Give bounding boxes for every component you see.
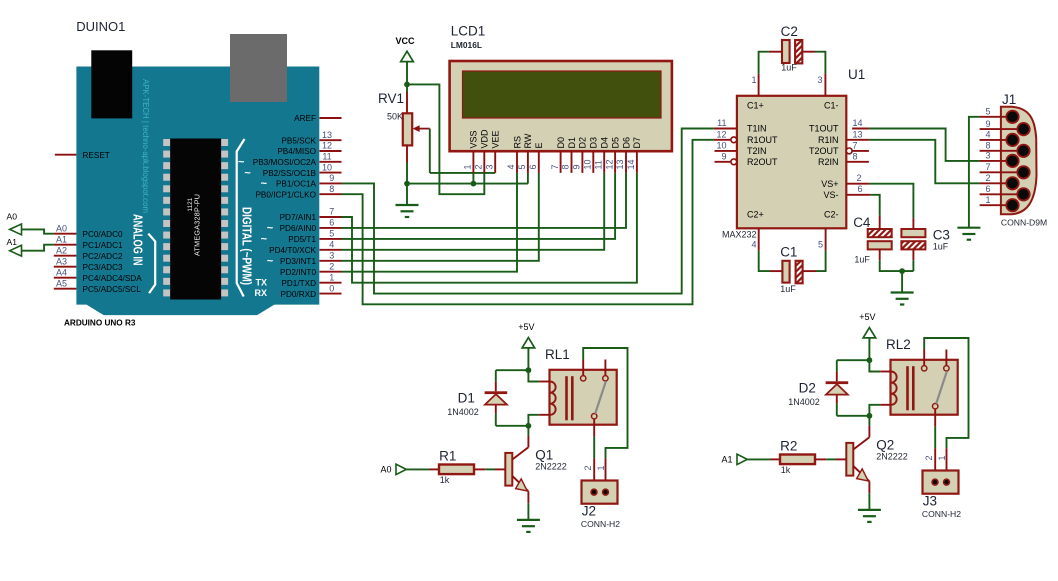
svg-text:T1IN: T1IN [747, 124, 767, 134]
resistor R1 1k [439, 449, 474, 485]
svg-text:C1: C1 [780, 244, 797, 259]
svg-text:3: 3 [484, 164, 494, 169]
svg-text:0: 0 [329, 283, 334, 293]
capacitor C2 [781, 24, 803, 73]
arduino left pin names [83, 151, 143, 294]
wire U1 pin5 to C1 [803, 228, 826, 271]
wire RV1 bottom to ground bus [404, 145, 410, 205]
wire RL2 common contact to J3 pin 1 [924, 338, 968, 471]
svg-text:Q2: Q2 [876, 438, 894, 453]
arduino left pin stubs and labels [54, 155, 77, 289]
svg-text:7: 7 [550, 164, 560, 169]
svg-text:A0: A0 [381, 464, 392, 474]
svg-text:ANALOG IN: ANALOG IN [131, 214, 145, 266]
svg-text:6: 6 [329, 218, 334, 228]
svg-text:6: 6 [528, 164, 538, 169]
svg-text:RS: RS [512, 136, 522, 149]
svg-text:R2IN: R2IN [818, 157, 839, 167]
svg-text:A0: A0 [56, 223, 67, 233]
svg-text:A1: A1 [56, 234, 67, 244]
svg-text:2N2222: 2N2222 [876, 452, 908, 462]
svg-text:R2OUT: R2OUT [747, 157, 778, 167]
svg-text:CONN-H2: CONN-H2 [922, 509, 961, 519]
svg-text:1uF: 1uF [933, 242, 949, 252]
svg-text:5: 5 [985, 107, 990, 117]
svg-text:9: 9 [721, 152, 726, 162]
svg-text:PD0/RXD: PD0/RXD [281, 290, 317, 299]
terminal A0 (left) [7, 212, 22, 235]
wire +5V to RL2 coil top [869, 360, 880, 371]
power +5V (RL1) [527, 338, 529, 350]
svg-text:PB1/OC1A: PB1/OC1A [276, 180, 317, 189]
svg-text:13: 13 [853, 130, 863, 140]
wire PD7 to LCD D7 [342, 173, 637, 283]
svg-text:+5V: +5V [859, 312, 875, 322]
arduino power jack [91, 50, 132, 118]
wire Q1 collector to relay coil [527, 426, 529, 448]
svg-text:4: 4 [751, 240, 756, 250]
svg-text:DUINO1: DUINO1 [76, 19, 125, 34]
ground (J1) [957, 227, 980, 229]
svg-text:3: 3 [985, 151, 990, 161]
svg-text:R2: R2 [780, 439, 797, 454]
svg-text:PC1/ADC1: PC1/ADC1 [83, 241, 123, 250]
svg-text:4: 4 [506, 164, 516, 169]
svg-text:PC0/ADC0: PC0/ADC0 [83, 230, 123, 239]
svg-text:C4: C4 [853, 215, 871, 230]
svg-text:10: 10 [583, 159, 593, 169]
wire PB1 to MAX232 T1IN [342, 129, 737, 294]
svg-text:T2OUT: T2OUT [809, 146, 839, 156]
potentiometer RV1 [378, 91, 430, 145]
svg-text:1N4002: 1N4002 [788, 397, 820, 407]
ground (Q2) [858, 509, 881, 511]
svg-text:J2: J2 [582, 504, 596, 519]
svg-text:C2: C2 [781, 24, 798, 39]
arduino board DUINO1 body [76, 67, 319, 316]
svg-text:PB3/MOSI/OC2A: PB3/MOSI/OC2A [253, 158, 317, 167]
wire D1 anode loop [496, 404, 529, 425]
svg-text:1uF: 1uF [780, 284, 796, 294]
svg-text:PB0/ICP1/CLKO: PB0/ICP1/CLKO [255, 190, 316, 199]
svg-text:D3: D3 [589, 137, 599, 149]
svg-text:C1-: C1- [824, 100, 839, 110]
svg-text:10: 10 [322, 162, 332, 172]
wire RV1 wiper to LCD VEE [430, 129, 495, 173]
wire RL2 NC contact to J3 pin 2 [934, 427, 936, 471]
wire U1 VS- to C4 [846, 195, 879, 229]
svg-text:D6: D6 [621, 137, 631, 149]
transistor Q2 2N2222 [846, 437, 907, 481]
ground (RV1) [396, 204, 419, 206]
svg-text:1N4002: 1N4002 [447, 407, 479, 417]
svg-text:7: 7 [985, 162, 990, 172]
svg-text:R1IN: R1IN [818, 135, 839, 145]
svg-text:11: 11 [717, 118, 726, 128]
svg-text:C2+: C2+ [747, 210, 764, 220]
svg-text:2: 2 [583, 465, 593, 470]
ic U1 MAX232 [722, 67, 865, 240]
svg-text:ARDUINO UNO R3: ARDUINO UNO R3 [64, 319, 136, 328]
wire PB0 to MAX232 R1OUT [342, 140, 734, 304]
wire D2 anode loop [837, 394, 870, 415]
svg-text:~: ~ [267, 256, 274, 268]
svg-text:D7: D7 [632, 137, 642, 149]
svg-text:LM016L: LM016L [451, 40, 482, 50]
terminal A1 (left) [7, 237, 22, 256]
wire Q2 emitter to ground [868, 481, 870, 510]
wire A0 terminal to PC0/ADC0 [22, 229, 54, 233]
svg-text:13: 13 [615, 159, 625, 169]
svg-text:PD7/AIN1: PD7/AIN1 [280, 213, 317, 222]
svg-text:PD4/T0/XCK: PD4/T0/XCK [269, 246, 316, 255]
svg-text:PB4/MISO: PB4/MISO [277, 147, 316, 156]
svg-text:+5V: +5V [518, 322, 534, 332]
svg-text:CONN-H2: CONN-H2 [581, 519, 620, 529]
svg-text:PD1/TXD: PD1/TXD [281, 279, 316, 288]
resistor R2 1k [780, 439, 815, 475]
svg-text:PD2/INT0: PD2/INT0 [280, 268, 316, 277]
svg-text:9: 9 [572, 164, 582, 169]
svg-text:VS-: VS- [823, 190, 838, 200]
svg-text:3: 3 [817, 75, 822, 85]
arduino silkscreen brackets [148, 139, 244, 297]
svg-text:RW: RW [523, 133, 533, 148]
svg-text:E: E [534, 142, 544, 148]
wire J1 pin 5 to ground rail [969, 117, 980, 228]
svg-text:~: ~ [267, 223, 274, 235]
svg-text:D5: D5 [610, 137, 620, 149]
svg-text:PC2/ADC2: PC2/ADC2 [83, 252, 123, 261]
diode D1 1N4002 [447, 391, 507, 417]
svg-text:RX: RX [254, 288, 267, 298]
svg-text:1: 1 [596, 465, 606, 470]
svg-text:1k: 1k [440, 475, 450, 485]
wire RL2 coil bottom to collector node [869, 405, 880, 416]
wire +5V rail (RL1) [526, 348, 532, 429]
arduino MCU chip ATMEGA328P-PU [163, 139, 228, 300]
connector J1 CONN-D9M [980, 92, 1048, 227]
svg-text:1: 1 [937, 455, 947, 460]
svg-text:13: 13 [322, 130, 332, 140]
svg-text:PD6/AIN0: PD6/AIN0 [280, 224, 317, 233]
svg-text:RL1: RL1 [545, 347, 570, 362]
wire VCC to RV1 top [404, 62, 410, 113]
svg-text:PC5/ADC5/SCL: PC5/ADC5/SCL [83, 285, 142, 294]
svg-text:RL2: RL2 [886, 337, 911, 352]
connector J3 CONN-H2 [922, 455, 961, 518]
arduino right pin names [238, 114, 317, 299]
svg-text:RV1: RV1 [378, 91, 404, 106]
connector J2 CONN-H2 [581, 465, 620, 528]
svg-text:7: 7 [853, 141, 858, 151]
svg-text:D1: D1 [458, 391, 475, 406]
terminal A0 (R1 input) [381, 464, 407, 474]
wire R1IN to J1 pin 2 [846, 140, 979, 184]
wire RL1 common contact to J2 pin 1 [583, 348, 627, 481]
svg-text:CONN-D9M: CONN-D9M [1001, 217, 1047, 227]
svg-text:T2IN: T2IN [747, 146, 767, 156]
svg-text:C1+: C1+ [747, 100, 764, 110]
svg-text:2N2222: 2N2222 [535, 462, 567, 472]
svg-text:12: 12 [716, 130, 726, 140]
ground (Q1) [517, 519, 540, 521]
svg-text:MAX232: MAX232 [722, 230, 757, 240]
svg-text:Q1: Q1 [535, 448, 553, 463]
svg-text:D4: D4 [600, 137, 610, 149]
svg-text:LCD1: LCD1 [451, 23, 486, 38]
svg-text:VSS: VSS [469, 130, 479, 148]
svg-text:J3: J3 [923, 494, 937, 509]
wire +5V to RL1 coil top [528, 370, 539, 381]
svg-text:1: 1 [985, 195, 990, 205]
lcd LCD1 LM016L [450, 23, 672, 151]
svg-text:2: 2 [985, 173, 990, 183]
arduino USB connector [230, 34, 287, 102]
wire U1 pin4 to C1 [759, 228, 783, 271]
svg-text:A4: A4 [56, 267, 67, 277]
svg-text:T1OUT: T1OUT [809, 124, 839, 134]
wire T1OUT to J1 pin 3 [852, 129, 980, 161]
wire A1 to R2 [747, 458, 780, 460]
svg-text:6: 6 [985, 184, 990, 194]
svg-text:C3: C3 [933, 228, 950, 243]
wire U1 pin3 to C2 [803, 52, 826, 96]
svg-text:R1: R1 [439, 449, 456, 464]
svg-text:8: 8 [561, 164, 571, 169]
svg-text:J1: J1 [1002, 92, 1016, 107]
wire C4 C3 to ground [880, 249, 914, 292]
svg-text:VDD: VDD [480, 129, 490, 149]
svg-text:PC4/ADC4/SDA: PC4/ADC4/SDA [83, 274, 143, 283]
svg-text:2: 2 [474, 164, 484, 169]
svg-text:2: 2 [857, 173, 862, 183]
wire A1 terminal to PC1/ADC1 [22, 245, 54, 251]
svg-text:DIGITAL (~PWM): DIGITAL (~PWM) [240, 207, 254, 285]
wire R1 to Q1 base [474, 468, 505, 470]
capacitor C3 [901, 228, 950, 252]
svg-text:A0: A0 [7, 212, 18, 222]
arduino right pin stubs and numbers [320, 118, 342, 294]
power +5V (RL2) [868, 328, 870, 340]
wire ground bus to VSS and RW [407, 173, 528, 187]
wire VCC branch to LCD VDD [407, 84, 484, 194]
svg-text:9: 9 [329, 173, 334, 183]
capacitor C1 [780, 244, 802, 293]
svg-text:AREF: AREF [294, 114, 316, 123]
svg-text:14: 14 [626, 159, 636, 169]
wire PD5 to LCD D5 [342, 173, 616, 239]
svg-text:PB2/SS/OC1B: PB2/SS/OC1B [263, 169, 317, 178]
svg-text:1121: 1121 [187, 197, 194, 211]
svg-text:ATMEGA328P-PU: ATMEGA328P-PU [193, 194, 202, 256]
diode D2 1N4002 [788, 381, 848, 407]
svg-text:8: 8 [853, 152, 858, 162]
terminal A1 (R2 input) [722, 454, 748, 464]
svg-text:5: 5 [329, 229, 334, 239]
svg-text:11: 11 [322, 152, 331, 162]
svg-text:4: 4 [329, 240, 334, 250]
lcd pin stubs and numbers 1-14 [463, 151, 637, 173]
svg-text:A5: A5 [56, 278, 67, 288]
svg-text:2: 2 [329, 261, 334, 271]
transistor Q1 2N2222 [505, 447, 566, 491]
svg-text:D0: D0 [556, 137, 566, 149]
lcd pin names [469, 129, 643, 149]
svg-text:1: 1 [329, 272, 334, 282]
svg-text:5: 5 [818, 240, 823, 250]
svg-text:14: 14 [853, 118, 863, 128]
svg-text:3: 3 [329, 251, 334, 261]
wire A0 to R1 [406, 468, 439, 470]
svg-text:RESET: RESET [83, 151, 110, 160]
wire +5V rail (RL2) [867, 338, 873, 419]
svg-text:C2-: C2- [824, 210, 839, 220]
svg-text:7: 7 [329, 207, 334, 217]
svg-text:~: ~ [261, 178, 268, 190]
capacitor C4 [853, 215, 892, 265]
wire U1 pin1 to C2 [759, 52, 782, 96]
J1 pin numbers [985, 107, 990, 205]
svg-text:R1OUT: R1OUT [747, 135, 778, 145]
svg-text:1: 1 [751, 75, 756, 85]
power VCC symbol [406, 51, 408, 63]
svg-text:8: 8 [985, 141, 990, 151]
wire PD6 to LCD D6 [342, 173, 627, 228]
wire R2 to Q2 base [815, 458, 846, 460]
wire PD4 to LCD D4 [342, 173, 605, 250]
svg-text:4: 4 [985, 130, 990, 140]
svg-text:A2: A2 [56, 245, 67, 255]
svg-text:D2: D2 [578, 137, 588, 149]
svg-text:D2: D2 [799, 381, 816, 396]
svg-text:PC3/ADC3: PC3/ADC3 [83, 263, 123, 272]
relay RL2 [880, 337, 958, 427]
svg-text:VS+: VS+ [821, 179, 838, 189]
U1 pin numbers [716, 75, 862, 249]
svg-text:PD3/INT1: PD3/INT1 [280, 257, 316, 266]
svg-text:12: 12 [604, 159, 614, 169]
svg-text:PD5/T1: PD5/T1 [288, 235, 316, 244]
svg-text:VEE: VEE [491, 130, 501, 148]
svg-text:8: 8 [329, 184, 334, 194]
wire Q2 collector to relay coil [868, 416, 870, 438]
relay RL1 [539, 347, 617, 437]
svg-text:A3: A3 [56, 256, 67, 266]
svg-text:1uF: 1uF [854, 255, 870, 265]
svg-text:1k: 1k [781, 465, 791, 475]
wire PD2 to LCD RS [342, 173, 518, 272]
svg-text:~: ~ [244, 167, 251, 179]
U1 inversion bubble R1OUT [731, 137, 737, 143]
wire U1 VS+ to C3 [846, 184, 913, 229]
ground (C3 C4) [891, 291, 914, 293]
svg-text:~: ~ [261, 234, 268, 246]
svg-text:TX: TX [255, 277, 267, 287]
svg-text:A1: A1 [7, 237, 18, 247]
wire PD3 to LCD E [342, 173, 539, 261]
svg-text:50K: 50K [387, 112, 403, 122]
svg-text:D1: D1 [567, 137, 577, 149]
wire D2 cathode loop [837, 360, 870, 381]
svg-text:6: 6 [858, 184, 863, 194]
svg-text:A1: A1 [722, 454, 733, 464]
svg-text:2: 2 [924, 455, 934, 460]
svg-text:5: 5 [517, 164, 527, 169]
svg-text:1uF: 1uF [781, 63, 797, 73]
svg-text:PB5/SCK: PB5/SCK [281, 136, 316, 145]
svg-text:11: 11 [593, 160, 603, 169]
svg-text:10: 10 [716, 141, 726, 151]
wire RL1 coil bottom to collector node [528, 415, 539, 426]
svg-text:APK-TECH | techno-apk.blogspot: APK-TECH | techno-apk.blogspot.com [141, 79, 150, 213]
wire RL1 NC contact to J2 pin 2 [593, 437, 595, 481]
svg-text:VCC: VCC [395, 36, 415, 46]
wire D1 cathode loop [496, 370, 529, 391]
svg-text:1: 1 [463, 164, 473, 169]
svg-text:12: 12 [322, 141, 332, 151]
svg-text:9: 9 [985, 119, 990, 129]
svg-text:U1: U1 [848, 67, 865, 82]
wire Q1 emitter to ground [527, 491, 529, 520]
U1 unconnected pin stubs T2IN R2OUT T2OUT R2IN [715, 148, 869, 165]
